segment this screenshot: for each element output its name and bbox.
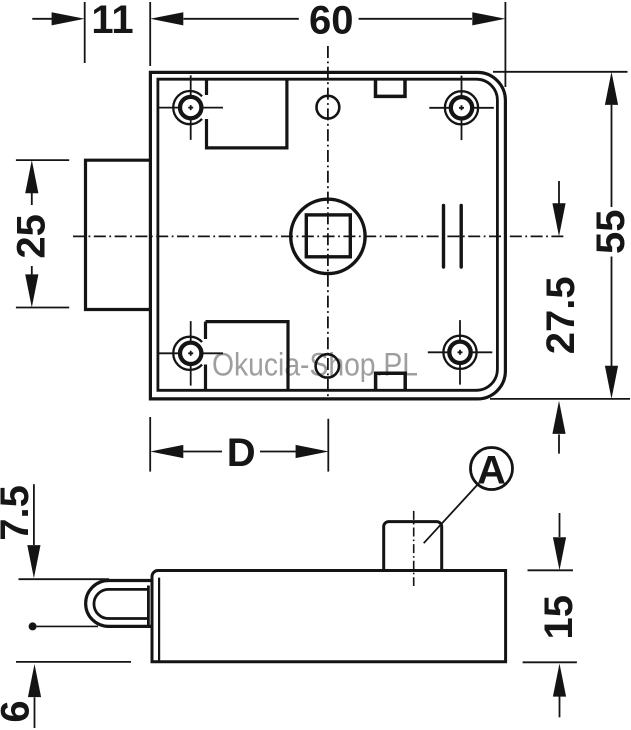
dimension 25: dim line and arrows <box>31 193 33 275</box>
svg-text:A: A <box>477 448 506 492</box>
dimension 60: arrows and line <box>184 18 473 20</box>
hook bolt right closure <box>147 586 150 627</box>
side view boss A <box>384 522 442 571</box>
detail callout A circle <box>471 448 513 490</box>
dimension D: dim line and arrows <box>183 451 296 453</box>
bolt protruding left (top view) <box>86 160 151 309</box>
bolt axis line <box>37 625 98 627</box>
small hole top center <box>317 96 340 119</box>
hook bolt outer outline (side view) <box>86 581 152 627</box>
svg-text:15: 15 <box>537 595 581 640</box>
svg-text:27.5: 27.5 <box>539 276 583 354</box>
dimension 27.5: upper outside arrow <box>558 181 560 204</box>
svg-text:6: 6 <box>0 700 38 722</box>
dimension 7.5: dim line and arrow <box>33 484 35 545</box>
screw hole bottom-right <box>428 320 493 385</box>
boss centerline <box>413 511 415 586</box>
svg-text:11: 11 <box>91 0 133 42</box>
dimension 15: arrows <box>559 513 561 537</box>
dimension 15: extension lines <box>523 570 577 662</box>
dimension 11: extension lines <box>85 2 151 66</box>
small hole bottom center <box>316 354 339 377</box>
top-left pocket cutout <box>207 79 287 148</box>
svg-text:D: D <box>227 431 256 475</box>
svg-text:7.5: 7.5 <box>0 485 37 541</box>
detail callout leader line <box>424 484 478 543</box>
screw hole top-left (outer circle with gap facing pocket) <box>159 75 224 139</box>
dimension 7.5: extension line <box>19 578 110 580</box>
bottom edge notch <box>376 373 406 390</box>
svg-text:60: 60 <box>309 0 354 43</box>
top edge notch <box>376 79 406 96</box>
dimension 60: right extension line <box>504 2 506 87</box>
lock case seam inner outline <box>158 79 498 390</box>
vertical centerline <box>327 46 329 400</box>
dimension 25: extension lines <box>16 160 69 307</box>
spindle hole circle <box>291 199 365 273</box>
dimension 55: dim line and arrows <box>611 105 613 366</box>
dimension 11: arrow <box>32 18 52 20</box>
bottom-left pocket cutout <box>206 322 289 390</box>
dimension 6: extension line <box>16 661 131 663</box>
spindle square <box>306 215 350 257</box>
bolt axis dot <box>29 622 37 630</box>
hook bolt inner slot <box>94 589 148 618</box>
dimension 55: extension lines <box>490 72 630 399</box>
dimension 27.5: lower outside arrow <box>558 434 560 453</box>
screw hole bottom-left (outer circle with gap facing pocket) <box>159 321 224 386</box>
svg-text:55: 55 <box>589 210 631 255</box>
parallel marks right side <box>444 205 462 267</box>
horizontal centerline <box>73 235 566 237</box>
screw hole top-right <box>429 76 494 141</box>
side view body <box>152 571 506 662</box>
dimension 6: arrow <box>34 697 36 728</box>
lock body outer outline (top view) <box>150 72 505 399</box>
svg-text:25: 25 <box>10 214 54 259</box>
dimension D: left extension line <box>149 417 151 472</box>
side view faceplate seam <box>158 578 160 662</box>
